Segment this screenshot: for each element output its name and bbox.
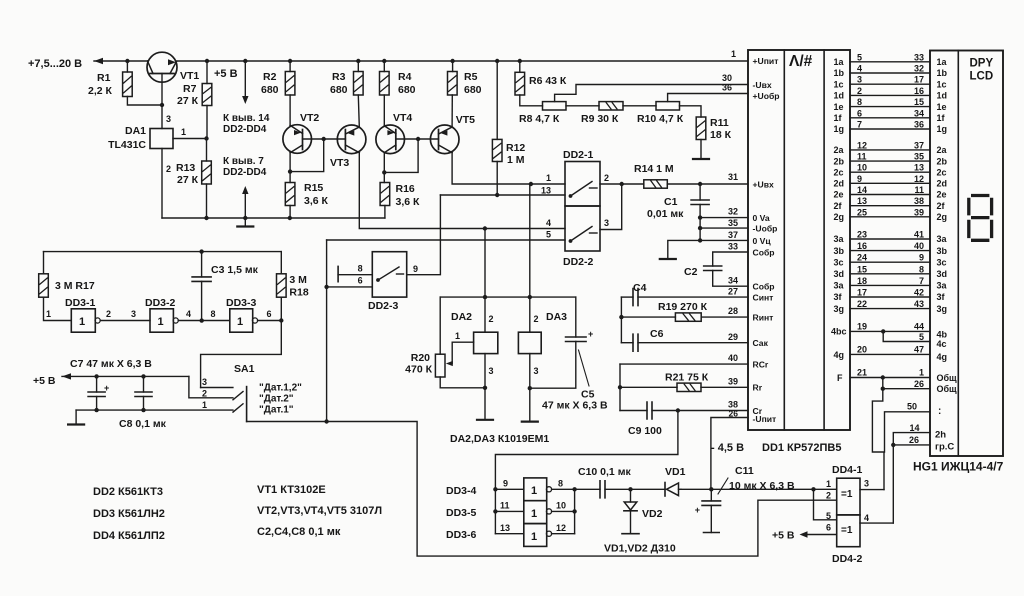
svg-text:4c: 4c <box>937 339 947 349</box>
svg-text:R16: R16 <box>396 183 415 195</box>
svg-text:3d: 3d <box>834 269 845 279</box>
svg-text:25: 25 <box>857 207 867 217</box>
wire DD4-1 pin3 output <box>860 489 884 491</box>
svg-text:SA1: SA1 <box>234 363 255 375</box>
svg-text:R6 43 К: R6 43 К <box>529 75 567 87</box>
svg-text:13: 13 <box>857 196 867 206</box>
wire segment digit1 row 7-36 <box>850 128 930 130</box>
svg-text:44: 44 <box>914 322 924 332</box>
capacitor C6 on Sak pin29 <box>621 342 633 344</box>
svg-text:8: 8 <box>558 479 563 489</box>
svg-text:3a: 3a <box>834 281 845 291</box>
svg-text:C10 0,1 мк: C10 0,1 мк <box>578 466 631 478</box>
svg-text:-Uвх: -Uвх <box>753 80 772 90</box>
svg-text:1e: 1e <box>834 102 844 112</box>
svg-text:18 К: 18 К <box>710 129 732 141</box>
svg-text:C1: C1 <box>664 196 678 208</box>
svg-text:1: 1 <box>455 331 460 341</box>
resistor R3 680 <box>356 59 360 63</box>
loop top wire R17-C3-R18 <box>44 251 282 253</box>
svg-text:3: 3 <box>131 309 136 319</box>
svg-text:2: 2 <box>826 491 831 501</box>
svg-text:3a: 3a <box>937 234 948 244</box>
svg-text:5: 5 <box>919 332 924 342</box>
svg-text:4g: 4g <box>834 350 845 360</box>
inverter DD3-1 <box>71 309 95 332</box>
svg-text:"Дат.1,2": "Дат.1,2" <box>259 383 302 394</box>
svg-text:DD3-5: DD3-5 <box>446 507 477 519</box>
svg-text:1d: 1d <box>937 91 948 101</box>
svg-text:38: 38 <box>914 196 924 206</box>
svg-text:35: 35 <box>728 218 738 228</box>
svg-text:Общ: Общ <box>937 373 958 383</box>
svg-text:8: 8 <box>919 264 924 274</box>
svg-text:Rинт: Rинт <box>753 313 774 323</box>
svg-text:3f: 3f <box>834 292 843 302</box>
svg-text:DD2 К561КТ3: DD2 К561КТ3 <box>93 486 163 498</box>
trimmer R8 4.7K <box>543 102 567 110</box>
svg-text:1a: 1a <box>834 57 845 67</box>
inverter DD3-3 <box>230 309 253 332</box>
arrow to pin14 DD2-DD4 <box>243 59 247 63</box>
svg-text:2: 2 <box>202 389 207 399</box>
svg-text:К выв. 14: К выв. 14 <box>223 113 270 124</box>
svg-text:R11: R11 <box>710 117 729 129</box>
svg-text:37: 37 <box>728 230 738 240</box>
wiper R10 to +Uobr pin36 <box>668 94 748 102</box>
capacitor C3 1.5uF <box>201 281 203 320</box>
wire segment digit1 row 5-33 <box>850 61 930 63</box>
svg-text:2: 2 <box>489 314 494 324</box>
wire segment digit2 row 11-35 <box>850 160 930 162</box>
inverter DD3-6 <box>524 524 547 547</box>
svg-text:R15: R15 <box>304 182 323 194</box>
XOR gate DD4-2 <box>837 515 860 547</box>
svg-text:47: 47 <box>914 345 924 355</box>
svg-text:4: 4 <box>186 309 191 319</box>
svg-text:2: 2 <box>857 86 862 96</box>
svg-text:11: 11 <box>914 185 924 195</box>
svg-text:3g: 3g <box>937 304 948 314</box>
svg-text:2: 2 <box>534 314 539 324</box>
wire segment digit1 row 4-32 <box>850 72 930 74</box>
svg-text:26: 26 <box>729 409 739 419</box>
svg-text:14: 14 <box>857 185 867 195</box>
svg-text:3g: 3g <box>834 304 845 314</box>
wire Obsh second <box>883 378 930 389</box>
svg-text:R21 75 К: R21 75 К <box>665 372 709 384</box>
svg-text:=1: =1 <box>841 489 853 500</box>
svg-text:2a: 2a <box>937 145 948 155</box>
svg-text:4: 4 <box>857 64 862 74</box>
svg-text:R12: R12 <box>506 142 525 154</box>
svg-text:VT1 КТ3102Е: VT1 КТ3102Е <box>257 484 326 496</box>
wire DD2-3 pin6 <box>327 286 373 288</box>
wire DD4-2 pin4 output <box>860 522 893 524</box>
svg-text:VT5: VT5 <box>456 114 475 126</box>
wire segment digit2 row 12-37 <box>850 149 930 151</box>
svg-text:Синт: Синт <box>753 293 774 303</box>
resistor R15 3.6K <box>289 172 291 183</box>
svg-text:39: 39 <box>728 377 738 387</box>
svg-text:R5: R5 <box>464 71 478 83</box>
svg-text:3: 3 <box>534 366 539 376</box>
svg-text:VD1: VD1 <box>665 466 686 478</box>
resistor R14 1M <box>644 180 668 188</box>
svg-text:27 К: 27 К <box>177 174 199 186</box>
diode VD2 <box>630 489 632 502</box>
svg-text:1c: 1c <box>834 79 844 89</box>
svg-text:1: 1 <box>79 316 85 328</box>
svg-text:19: 19 <box>857 322 867 332</box>
resistor R21 75K on Rr pin39 <box>620 386 677 388</box>
svg-text:36: 36 <box>722 83 732 93</box>
resistor R9 30K <box>566 105 599 107</box>
svg-text:DD3-6: DD3-6 <box>446 529 477 541</box>
resistor R12 1M <box>495 59 499 63</box>
svg-text:R18: R18 <box>289 287 308 299</box>
svg-text:14: 14 <box>910 423 920 433</box>
svg-text:28: 28 <box>728 306 738 316</box>
svg-text:C7 47 мк X 6,3 В: C7 47 мк X 6,3 В <box>70 358 152 370</box>
svg-text:VT2,VT3,VT4,VT5 3107Л: VT2,VT3,VT4,VT5 3107Л <box>257 505 382 517</box>
wire VT5 collector to DD2-1 pin1 (+Uvx net) <box>452 153 565 184</box>
svg-text:+5 В: +5 В <box>214 68 238 80</box>
svg-text:"Дат.1": "Дат.1" <box>259 405 294 416</box>
svg-text:C2,C4,C8 0,1 мк: C2,C4,C8 0,1 мк <box>257 526 341 538</box>
capacitor C4 left vertical <box>620 297 622 343</box>
svg-text:470 К: 470 К <box>405 364 432 376</box>
wire 4b pin19-44 <box>850 330 930 332</box>
resistor R11 18K <box>680 106 702 117</box>
svg-text:1 М: 1 М <box>507 154 525 166</box>
svg-text:12: 12 <box>914 174 924 184</box>
svg-text:3b: 3b <box>937 246 948 256</box>
svg-text:Собр: Собр <box>753 282 775 292</box>
svg-text:Rr: Rr <box>753 383 763 393</box>
svg-text:F: F <box>837 373 843 383</box>
wire 4g pin20-47 <box>850 353 930 355</box>
svg-text:1g: 1g <box>937 124 948 134</box>
svg-text:R13: R13 <box>176 162 195 174</box>
svg-text:1g: 1g <box>834 124 845 134</box>
ground rail bottom left <box>162 217 385 219</box>
DA2 pin2 wire <box>484 229 486 333</box>
svg-text:R2: R2 <box>263 71 277 83</box>
svg-text:3 М R17: 3 М R17 <box>55 280 95 292</box>
svg-text:27: 27 <box>728 287 738 297</box>
svg-text:VT3: VT3 <box>330 157 349 169</box>
wire segment digit3 row 17-42 <box>850 296 930 298</box>
resistor R16 3.6K <box>383 172 385 182</box>
svg-text:DD1 КР572ПВ5: DD1 КР572ПВ5 <box>762 442 841 454</box>
svg-text:13: 13 <box>541 186 551 196</box>
wire DA1 pin2 down <box>161 149 163 219</box>
svg-text:C11: C11 <box>735 465 754 477</box>
svg-text:10: 10 <box>556 501 566 511</box>
capacitor C5 47uF <box>575 297 577 337</box>
svg-text:R7: R7 <box>183 83 197 95</box>
trimmer R20 470K <box>439 297 441 354</box>
wire 4c branch <box>883 331 930 341</box>
svg-text:2: 2 <box>604 173 609 183</box>
ground stub on 0Vc <box>668 240 700 258</box>
svg-text:R1: R1 <box>97 72 111 84</box>
wire segment digit1 row 8-15 <box>850 106 930 108</box>
svg-text:LCD: LCD <box>970 71 994 83</box>
svg-text:8: 8 <box>857 97 862 107</box>
wire feedback net left <box>326 240 328 421</box>
svg-text:23: 23 <box>857 230 867 240</box>
svg-text:20: 20 <box>857 345 867 355</box>
wire VT3 collector to DD2-2 pin4 <box>359 153 565 229</box>
svg-text:18: 18 <box>857 276 867 286</box>
diode VD1 <box>631 488 666 490</box>
svg-text:3 М: 3 М <box>289 274 307 286</box>
svg-text:47 мк X 6,3 В: 47 мк X 6,3 В <box>542 400 608 412</box>
svg-text:17: 17 <box>914 75 924 85</box>
wire top +5V rail <box>127 60 147 62</box>
resistor R4 680 <box>382 59 386 63</box>
DD3 output join <box>552 488 575 490</box>
svg-text:2h: 2h <box>935 430 946 441</box>
svg-text:15: 15 <box>914 97 924 107</box>
resistor R2 680 <box>288 59 292 63</box>
svg-text:3: 3 <box>864 479 869 489</box>
svg-text:33: 33 <box>914 52 924 62</box>
svg-text:-Uпит: -Uпит <box>753 414 777 424</box>
svg-text:9: 9 <box>857 174 862 184</box>
wire segment digit2 row 13-38 <box>850 205 930 207</box>
capacitor C10 0.1uF <box>575 488 600 490</box>
LCD digit 8 <box>969 196 992 241</box>
left vertical R21 block <box>619 364 621 410</box>
open bar terminal pin8 DD2-3 <box>337 266 339 281</box>
wire DD2-1 pin13 <box>440 194 565 196</box>
svg-text:34: 34 <box>728 276 738 286</box>
wire 2h from DD4-2 <box>893 433 930 523</box>
svg-text:3,6 К: 3,6 К <box>396 196 421 208</box>
svg-text:+: + <box>588 329 593 339</box>
wire segment digit3 row 18-7 <box>850 284 930 286</box>
svg-text:680: 680 <box>398 84 416 96</box>
wire DD3-3 out down to SA1 contact 3 <box>201 321 282 388</box>
wire +5V to SA1 contact 2 <box>189 376 233 397</box>
svg-text:Общ: Общ <box>937 384 958 394</box>
svg-text:DD2-DD4: DD2-DD4 <box>223 124 267 135</box>
svg-text:1e: 1e <box>937 102 947 112</box>
svg-text:680: 680 <box>261 84 279 96</box>
svg-text:C8 0,1 мк: C8 0,1 мк <box>119 418 167 430</box>
svg-text:1: 1 <box>158 316 164 328</box>
arrow from pin7 DD2-DD4 <box>244 193 246 218</box>
transistor VT5 <box>430 125 459 154</box>
inverter DD3-4 <box>524 478 547 501</box>
svg-text:3: 3 <box>166 114 171 124</box>
svg-text:1: 1 <box>181 127 186 137</box>
ground wire under C7 C8 <box>76 409 233 411</box>
wire DD2-2 pin5 from SA1 net <box>327 239 565 241</box>
voltage ref DA1 TL431C <box>161 105 163 129</box>
svg-text:1: 1 <box>531 508 537 520</box>
svg-text:3a: 3a <box>834 234 845 244</box>
wire to +Uvx pin31 <box>667 183 748 185</box>
svg-text:2d: 2d <box>937 179 948 189</box>
DA3 pin2 wire from +Uvx net <box>529 184 531 332</box>
wire segment digit3 row 22-43 <box>850 308 930 310</box>
wire DD3-3 out <box>258 320 282 322</box>
wire RCr pin40 <box>620 363 748 365</box>
svg-text:DD2-1: DD2-1 <box>563 149 594 161</box>
svg-text:Собр: Собр <box>753 248 775 258</box>
svg-text:DD3-2: DD3-2 <box>145 297 176 309</box>
svg-text:3: 3 <box>202 377 207 387</box>
svg-text:1: 1 <box>531 485 537 497</box>
inverter DD3-2 <box>150 309 173 332</box>
svg-text:DA1: DA1 <box>125 125 146 137</box>
analog switch DD2-2 <box>565 206 600 251</box>
svg-text:1b: 1b <box>834 68 845 78</box>
DA3 pin3 wire <box>529 354 531 389</box>
svg-text:1: 1 <box>46 309 51 319</box>
svg-text:17: 17 <box>857 288 867 298</box>
wire colon segment 50 <box>885 412 931 452</box>
svg-text:+5 В: +5 В <box>772 530 795 542</box>
wire F pin21 to Obsh <box>850 377 930 379</box>
svg-text:+: + <box>104 383 109 393</box>
svg-text:36: 36 <box>914 120 924 130</box>
wire VT4 base to collector <box>384 139 418 172</box>
svg-text:1: 1 <box>731 49 736 59</box>
svg-text:4b: 4b <box>937 330 948 340</box>
svg-text:21: 21 <box>857 368 867 378</box>
svg-text:R4: R4 <box>398 71 412 83</box>
svg-text:31: 31 <box>728 172 738 182</box>
DD3 input stubs <box>495 488 523 490</box>
wire segment digit2 row 25-39 <box>850 216 930 218</box>
svg-text:3d: 3d <box>937 269 948 279</box>
svg-text:4g: 4g <box>937 352 948 362</box>
svg-text:DD3 К561ЛН2: DD3 К561ЛН2 <box>93 508 165 520</box>
svg-text:1: 1 <box>546 173 551 183</box>
svg-text:3f: 3f <box>937 292 946 302</box>
IC DD1 KR572PV5 body <box>748 50 850 430</box>
svg-text:3: 3 <box>857 75 862 85</box>
svg-text:41: 41 <box>914 230 924 240</box>
svg-text:33: 33 <box>728 242 738 252</box>
svg-text:24: 24 <box>857 253 867 263</box>
svg-text:2c: 2c <box>937 167 947 177</box>
svg-text:5: 5 <box>546 230 551 240</box>
svg-text:30: 30 <box>722 73 732 83</box>
svg-text:VT4: VT4 <box>393 112 412 124</box>
svg-text:DD4 К561ЛП2: DD4 К561ЛП2 <box>93 530 165 542</box>
resistor R17 3M <box>43 252 45 274</box>
XOR gate DD4-1 <box>837 478 860 515</box>
capacitor C11 10uF <box>711 488 837 490</box>
svg-text:DD3-3: DD3-3 <box>226 297 257 309</box>
resistor R7 27K <box>205 59 209 63</box>
inverter DD3-5 <box>524 501 547 524</box>
svg-text:1: 1 <box>531 531 537 543</box>
svg-text:2c: 2c <box>834 167 844 177</box>
svg-text:4: 4 <box>864 513 869 523</box>
svg-text:9: 9 <box>919 253 924 263</box>
wire Obsh staircase to DD4-1 pin3 <box>872 389 884 490</box>
SA1 arm <box>233 392 243 400</box>
svg-text:3c: 3c <box>937 257 947 267</box>
wire Sobr pin33 / cap C2 <box>713 252 748 266</box>
svg-text:DD4-2: DD4-2 <box>832 553 863 565</box>
svg-text:+: + <box>695 505 700 515</box>
svg-text:6: 6 <box>857 108 862 118</box>
transistor VT2 <box>283 125 312 154</box>
wire DD2-3 pin9 output up to pin13 net <box>407 195 441 275</box>
wire segment digit2 row 9-12 <box>850 182 930 184</box>
svg-text:C6: C6 <box>650 328 664 340</box>
svg-text:C4: C4 <box>633 282 647 294</box>
svg-text:Λ/#: Λ/# <box>789 53 813 70</box>
svg-text:DD2-2: DD2-2 <box>563 256 594 268</box>
resistor R19 270K on Rint pin28 <box>621 316 675 318</box>
svg-text:43: 43 <box>914 299 924 309</box>
svg-text:+7,5...20 В: +7,5...20 В <box>28 58 82 70</box>
svg-text:4: 4 <box>546 218 551 228</box>
wire DD2-2 pin3 output join <box>600 184 622 230</box>
svg-text:+Uобр: +Uобр <box>753 91 780 101</box>
svg-text:680: 680 <box>464 84 482 96</box>
wire 0Va pin32 <box>700 217 748 219</box>
wire -Upit pin26 <box>711 418 748 490</box>
svg-text:R10 4,7 К: R10 4,7 К <box>637 113 684 125</box>
wire segment digit3 row 24-9 <box>850 261 930 263</box>
svg-text:1: 1 <box>919 368 924 378</box>
svg-text:DA2: DA2 <box>451 311 472 323</box>
resistor R1 2.2K <box>125 59 129 63</box>
wire 0Vc pin37 <box>700 239 748 241</box>
wire SA1 common to bottom bus <box>247 422 837 557</box>
svg-text:10 мк X 6,3 В: 10 мк X 6,3 В <box>729 480 795 492</box>
svg-text:16: 16 <box>914 86 924 96</box>
svg-text:11: 11 <box>500 501 510 511</box>
wire segment digit1 row 3-17 <box>850 83 930 85</box>
svg-text:2a: 2a <box>834 145 845 155</box>
resistor R18 3M <box>280 252 282 274</box>
wire Sint pin27 with C4 <box>621 296 633 298</box>
svg-text:Сак: Сак <box>753 338 769 348</box>
svg-text:8: 8 <box>211 309 216 319</box>
svg-text:RCr: RCr <box>753 360 769 370</box>
svg-text:TL431C: TL431C <box>108 139 146 151</box>
wiper R8 to -Uvx pin30 <box>555 85 748 102</box>
svg-text:3,6 К: 3,6 К <box>304 195 329 207</box>
svg-text:VD1,VD2 Д310: VD1,VD2 Д310 <box>604 543 676 555</box>
svg-text:2g: 2g <box>834 212 845 222</box>
capacitor C7 47uF <box>94 374 98 378</box>
svg-text:VT1: VT1 <box>180 70 199 82</box>
svg-text:+5 В: +5 В <box>33 375 56 387</box>
svg-text:1b: 1b <box>937 68 948 78</box>
trimmer R10 4.7K <box>623 105 656 107</box>
svg-text:39: 39 <box>914 207 924 217</box>
wire segment digit1 row 2-16 <box>850 94 930 96</box>
svg-text:5: 5 <box>857 52 862 62</box>
resistor R13 27K <box>206 139 208 162</box>
svg-text:7: 7 <box>919 276 924 286</box>
svg-text:DPY: DPY <box>970 58 994 70</box>
svg-text:13: 13 <box>914 163 924 173</box>
svg-text:DD2-3: DD2-3 <box>368 300 399 312</box>
